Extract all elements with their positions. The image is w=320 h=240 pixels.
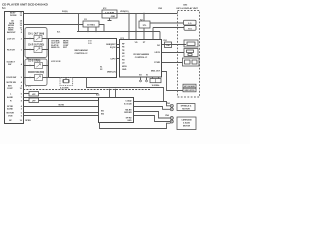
U1 pin labels top (7, 13, 32, 123)
svg-text:PD: PD (122, 59, 125, 61)
svg-text:1: 1 (21, 49, 23, 51)
svg-text:SE: SE (122, 53, 125, 55)
wire MOTOR (23, 112, 98, 114)
svg-text:6: 6 (21, 94, 23, 96)
svg-text:4: 4 (21, 63, 23, 66)
wire X2 to CN (150, 22, 184, 24)
svg-text:SPINDLE &: SPINDLE & (181, 106, 192, 108)
title CD PLAYER UNIT (2, 3, 49, 10)
wire C2 gnd stubs (88, 27, 96, 32)
wire AGND (23, 97, 98, 99)
svg-text:O O: O O (88, 43, 92, 45)
crystal X1 (60, 78, 73, 86)
svg-text:CN6: CN6 (165, 115, 170, 117)
switch EJECT SW (27, 58, 41, 63)
svg-text:SP RD: SP RD (126, 117, 132, 119)
wire IC4 to sled (134, 112, 171, 119)
svg-text:DOOR SW: DOOR SW (7, 77, 17, 79)
unit boundary dashed (178, 11, 200, 98)
svg-text:LCD S1 IN: LCD S1 IN (51, 61, 61, 63)
wire IC3 to J2 (162, 52, 184, 54)
svg-text:LRCK: LRCK (155, 52, 161, 54)
svg-text:2: 2 (21, 38, 23, 40)
connector CN4 (184, 40, 198, 47)
svg-text:5: 5 (21, 115, 23, 117)
svg-text:GND: GND (127, 120, 132, 122)
svg-text:FE: FE (122, 47, 125, 49)
svg-text:PCMD: PCMD (154, 62, 160, 64)
svg-text:SQCK: SQCK (110, 47, 116, 49)
svg-text:MECHANISM: MECHANISM (74, 49, 87, 52)
svg-text:OPEN: OPEN (25, 120, 31, 122)
svg-text:MOTOR: MOTOR (183, 126, 191, 128)
filter LPF L (29, 92, 39, 97)
svg-text:VDD(3V): VDD(3V) (120, 11, 129, 13)
wire rail drop to X2 (143, 14, 145, 22)
jack CH R OUT (28, 45, 44, 47)
svg-text:XT: XT (143, 42, 146, 44)
svg-text:DO: DO (157, 45, 160, 47)
svg-text:10: 10 (20, 88, 23, 90)
svg-text:C2PO: C2PO (110, 58, 116, 60)
svg-text:R O: R O (188, 28, 192, 30)
svg-text:MON: MON (122, 66, 127, 68)
wire IC4 bottom loop (100, 123, 171, 129)
wire RCH (23, 49, 48, 51)
svg-text:CN5: CN5 (166, 103, 171, 105)
wire C2 out elbow (99, 25, 104, 32)
svg-text:L: L (10, 94, 12, 96)
svg-text:DOWN: DOWN (10, 15, 17, 17)
wire IC3 DO out (162, 44, 186, 46)
svg-text:IC 3CUB: IC 3CUB (124, 103, 132, 105)
svg-text:9: 9 (21, 77, 23, 79)
group box line out L (25, 28, 47, 58)
wire VGN (23, 115, 98, 117)
svg-text:IC4: IC4 (96, 93, 100, 96)
crystal X2 (140, 19, 143, 21)
svg-text:MOTOR: MOTOR (182, 108, 190, 110)
svg-text:4: 4 (21, 81, 23, 84)
svg-text:VD: VD (135, 42, 138, 44)
connector CN5 (166, 103, 171, 105)
svg-text:RF: RF (122, 43, 125, 45)
svg-text:CONTROL IC: CONTROL IC (74, 53, 88, 55)
svg-text:DM: DM (166, 45, 169, 47)
motor spindle (177, 104, 195, 111)
svg-text:3.3V AVR: 3.3V AVR (105, 12, 115, 15)
panel box 2 (183, 88, 196, 92)
wire door (23, 77, 48, 79)
wire IC4 to spindle (134, 102, 171, 106)
svg-text:4: 4 (21, 105, 23, 108)
svg-text:15: 15 (20, 15, 23, 17)
svg-text:GND: GND (122, 69, 127, 71)
svg-text:BACKUP: BACKUP (7, 31, 16, 34)
svg-text:5V REG: 5V REG (87, 24, 95, 26)
IC3 CD mechanism control (121, 38, 125, 40)
svg-text:CN3: CN3 (158, 8, 163, 10)
svg-text:XTL: XTL (143, 25, 148, 27)
connector CN2 (184, 26, 196, 31)
svg-text:AGND: AGND (7, 108, 13, 111)
svg-text:MUTE: MUTE (59, 104, 65, 106)
jack CH L OUT (28, 34, 44, 36)
svg-text:LD: LD (122, 63, 125, 65)
wire rail drop to IC3 (128, 14, 130, 41)
regulator C2 (84, 19, 88, 21)
svg-text:DOOR SW (BN): DOOR SW (BN) (28, 72, 44, 74)
connector CN6 (165, 115, 170, 117)
svg-text:3: 3 (21, 109, 23, 111)
svg-text:8: 8 (21, 32, 23, 34)
wire 5V rail (23, 13, 177, 15)
svg-text:& SLED: & SLED (183, 123, 191, 125)
svg-text:MUTE SW: MUTE SW (7, 82, 16, 84)
wire R out (23, 100, 98, 102)
wire DATA to C2 (23, 24, 83, 26)
wire bus drop to IC3 top x160 (159, 32, 161, 41)
connector CN1 (184, 20, 197, 25)
regulator IC2 3.3V (103, 8, 107, 10)
component D1 (164, 40, 168, 42)
wire IC3 MWL out (162, 72, 183, 91)
wire LCH (23, 38, 48, 40)
wire IC1 xtal out (87, 78, 164, 102)
svg-text:CONT: CONT (7, 88, 13, 90)
svg-text:IN1: IN1 (101, 110, 105, 112)
panel box 1 (183, 84, 196, 88)
svg-text:AGND: AGND (7, 96, 13, 99)
wire L out (23, 93, 98, 95)
svg-text:SUBQRST: SUBQRST (106, 44, 116, 46)
svg-text:KEY & DISPLAY UNIT: KEY & DISPLAY UNIT (177, 7, 199, 10)
svg-text:NC: NC (9, 120, 12, 122)
svg-text:LCH OH: LCH OH (7, 38, 15, 40)
svg-text:5V(H): 5V(H) (62, 11, 68, 13)
wire bus y31.5 (77, 31, 160, 33)
wire IC3 bottom stubs (141, 77, 147, 80)
label 5V(H) (62, 11, 68, 13)
svg-text:GND: GND (111, 16, 116, 18)
node dashed to IC4 drops (110, 90, 116, 98)
wire IC3 top stub x153 (152, 28, 154, 41)
IC4 motor driver (96, 93, 100, 96)
svg-text:X2: X2 (100, 69, 103, 71)
node rail junction x144 (143, 13, 144, 14)
svg-text:IO: IO (146, 75, 149, 77)
IC1 mechanism control (57, 31, 61, 33)
wire x153 to CN2 (153, 27, 184, 29)
svg-text:KEY BOARD: KEY BOARD (184, 85, 196, 88)
filter LPF R (29, 98, 39, 103)
svg-text:A 4.19MHz: A 4.19MHz (60, 86, 69, 89)
svg-text:S-1: S-1 (2, 7, 6, 10)
svg-text:MWL OUT: MWL OUT (151, 71, 161, 73)
motor sled (177, 117, 196, 130)
switch DOOR SW (28, 72, 44, 74)
wire bus drop to IC3 top (135, 14, 137, 41)
connector J3 (183, 58, 200, 66)
svg-text:CN3: CN3 (183, 4, 188, 6)
node rail drop x79 (78, 14, 80, 32)
svg-text:8: 8 (21, 100, 23, 102)
svg-text:INH: INH (8, 85, 12, 87)
svg-text:CONTROL IC: CONTROL IC (135, 57, 148, 59)
wire D1 to CN4 (172, 44, 187, 46)
svg-text:INDICATOR: INDICATOR (185, 89, 196, 92)
svg-text:VC: VC (122, 56, 125, 58)
label CN3 KEY DISPLAY (158, 4, 199, 10)
svg-text:16.93MHz: 16.93MHz (152, 85, 160, 87)
svg-text:7: 7 (21, 97, 23, 99)
svg-text:DM/HL(T): DM/HL(T) (107, 72, 116, 74)
svg-text:C 4642: C 4642 (125, 100, 132, 103)
svg-text:DRIVER: DRIVER (124, 112, 132, 114)
svg-text:IN2: IN2 (101, 113, 105, 115)
svg-text:MOTOR: MOTOR (7, 112, 15, 114)
svg-text:TE: TE (122, 50, 125, 52)
IC U1 main connector block (5, 12, 24, 124)
wire eject (23, 65, 48, 67)
connector J2 (184, 49, 198, 57)
wire SP RD (23, 106, 98, 108)
svg-text:IC1: IC1 (57, 31, 61, 33)
svg-text:RCH OH: RCH OH (7, 49, 15, 51)
svg-text:MA BS: MA BS (125, 108, 132, 111)
svg-text:CARRIAGE: CARRIAGE (181, 119, 192, 122)
svg-text:SW: SW (8, 64, 11, 66)
svg-text:SO: SO (139, 75, 142, 77)
svg-text:RST: RST (63, 47, 68, 49)
wire dashed cont (23, 89, 150, 91)
svg-text:CD PLAYER UNIT DCD-D400-KD: CD PLAYER UNIT DCD-D400-KD (2, 3, 49, 7)
svg-text:VGN: VGN (8, 115, 13, 117)
crystal X3 (153, 77, 159, 79)
svg-text:R: R (10, 100, 12, 102)
group box switches (25, 59, 47, 86)
label VDD(3V) (120, 11, 129, 13)
wire IC3 to J3 (162, 62, 183, 64)
svg-text:6: 6 (21, 112, 23, 114)
svg-text:16: 16 (20, 120, 23, 122)
svg-text:G O: G O (188, 23, 192, 25)
bus IC1-IC3 (117, 45, 120, 59)
svg-text:SENS FG: SENS FG (51, 47, 60, 49)
node rail junction x129 (128, 13, 129, 14)
svg-text:4: 4 (21, 84, 23, 87)
svg-text:CD MECHANISM: CD MECHANISM (133, 53, 149, 56)
